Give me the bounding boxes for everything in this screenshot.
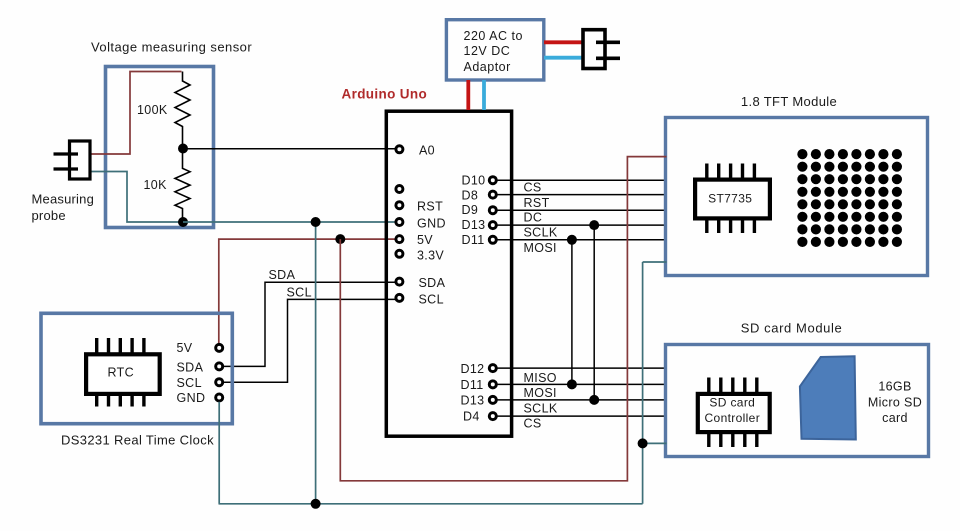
svg-text:DC: DC <box>524 211 543 225</box>
wire: probe plus to 100K top (red) <box>90 72 182 155</box>
wire: D10 to TFT CS <box>497 179 667 181</box>
pin D13 <box>489 222 496 229</box>
svg-text:D8: D8 <box>462 188 479 202</box>
svg-text:5V: 5V <box>417 233 433 247</box>
op: Arduino Uno board outline U1 <box>386 111 511 436</box>
wire: 5V net Arduino 5V to RTC 5V (red) <box>219 239 396 344</box>
wire: D11 to TFT MOSI <box>497 239 667 241</box>
pin RTC SCL <box>216 379 223 386</box>
svg-text:16GB: 16GB <box>878 380 911 394</box>
wire: D8 to TFT RST <box>497 194 667 196</box>
pin D11 <box>489 381 496 388</box>
svg-text:100K: 100K <box>137 103 168 117</box>
wire: D12 to SD MISO <box>497 367 667 369</box>
junction: SCLK top <box>589 220 599 230</box>
svg-text:5V: 5V <box>177 341 193 355</box>
svg-text:D11: D11 <box>461 378 484 392</box>
mains plug <box>583 30 620 69</box>
wire: GND teal vertical from GND junction <box>315 222 317 504</box>
wire: adaptor GND blue to Arduino <box>482 80 486 110</box>
wire: GND to TFT (teal) <box>643 261 667 263</box>
pin D11 <box>489 236 496 243</box>
svg-text:SDA: SDA <box>419 276 446 290</box>
module box: Voltage measuring sensor <box>106 67 214 228</box>
pin 5V <box>396 236 403 243</box>
svg-text:SDA: SDA <box>177 361 204 375</box>
svg-text:probe: probe <box>32 208 66 223</box>
svg-text:SCL: SCL <box>419 293 444 307</box>
svg-text:SDA: SDA <box>269 268 296 282</box>
wire: shared MOSI vertical <box>571 240 573 385</box>
svg-text:SCL: SCL <box>177 376 202 390</box>
IC U3 SD card Controller <box>698 378 770 448</box>
pin RST <box>396 202 403 209</box>
wire: D11 to SD MOSI <box>497 383 667 385</box>
measuring probe connector <box>54 141 91 179</box>
wire: SDA Arduino to RTC <box>224 282 396 366</box>
IC U4 RTC DS3231 <box>86 338 160 407</box>
junction: 5V branch <box>335 234 345 244</box>
svg-text:MISO: MISO <box>524 371 557 385</box>
pin D12 <box>489 365 496 372</box>
svg-text:3.3V: 3.3V <box>417 249 444 263</box>
svg-text:CS: CS <box>524 180 542 194</box>
svg-text:Voltage measuring sensor: Voltage measuring sensor <box>91 40 252 55</box>
pin GND <box>396 219 403 226</box>
wire: D4 to SD CS <box>497 415 667 417</box>
svg-text:SD card Module: SD card Module <box>741 320 843 335</box>
wire: adaptor to plug blue <box>544 56 582 60</box>
svg-text:Arduino Uno: Arduino Uno <box>342 86 428 101</box>
svg-text:MOSI: MOSI <box>524 241 557 255</box>
svg-text:10K: 10K <box>144 178 168 192</box>
pin 3.3V <box>396 250 403 257</box>
pin D13 <box>489 396 496 403</box>
pin RTC 5V <box>216 344 223 351</box>
resistor R2 10K <box>144 149 191 223</box>
svg-text:D9: D9 <box>462 203 479 217</box>
pin D9 <box>489 207 496 214</box>
module box: DS3231 RTC <box>41 313 232 423</box>
wire: D9 to TFT DC <box>497 209 667 211</box>
svg-text:MOSI: MOSI <box>524 386 557 400</box>
wire: adaptor 12V red to Arduino <box>466 80 470 110</box>
svg-text:D10: D10 <box>462 173 486 187</box>
svg-text:Controller: Controller <box>705 411 761 425</box>
wire: GND to SD module (teal) <box>643 442 667 444</box>
svg-text:A0: A0 <box>419 143 435 157</box>
svg-text:RST: RST <box>417 200 443 214</box>
pin RTC SDA <box>216 363 223 370</box>
pin (unlabeled) <box>396 186 403 193</box>
svg-text:D13: D13 <box>461 393 485 407</box>
pin D4 <box>489 413 496 420</box>
svg-text:D12: D12 <box>461 362 485 376</box>
svg-text:Micro SD: Micro SD <box>868 395 922 409</box>
svg-text:SCLK: SCLK <box>524 225 558 239</box>
pin D10 <box>489 177 496 184</box>
svg-text:RST: RST <box>524 196 550 210</box>
junction: SCLK bottom <box>589 395 599 405</box>
wire: D13 to SD SCLK <box>497 399 667 401</box>
wire: divider mid to A0 <box>183 148 395 150</box>
IC U2 ST7735 <box>695 164 770 234</box>
svg-text:SD card: SD card <box>709 396 755 410</box>
wire: GND right vertical (teal) <box>642 262 644 504</box>
svg-text:Measuring: Measuring <box>32 192 95 207</box>
junction: GND SD branch <box>638 438 648 448</box>
module box: SD card Module <box>666 345 929 457</box>
wire: SCL Arduino to RTC <box>224 299 396 382</box>
svg-text:CS: CS <box>524 416 542 430</box>
resistor R1 100K <box>137 72 190 149</box>
junction: GND bottom <box>311 499 321 509</box>
svg-text:Adaptor: Adaptor <box>464 60 511 74</box>
svg-text:220 AC to: 220 AC to <box>464 29 523 43</box>
wire: 5V red vertical down <box>340 157 666 481</box>
pin SDA <box>396 278 403 285</box>
svg-text:GND: GND <box>177 391 206 405</box>
svg-text:ST7735: ST7735 <box>708 191 752 205</box>
pin D8 <box>489 191 496 198</box>
svg-text:D13: D13 <box>462 218 486 232</box>
wire: adaptor to plug red <box>544 40 582 44</box>
junction: GND branch <box>311 217 321 227</box>
pin SCL <box>396 294 403 301</box>
svg-text:D4: D4 <box>463 410 480 424</box>
pin RTC GND <box>216 394 223 401</box>
module box: 1.8 TFT Module <box>666 118 928 276</box>
junction: MOSI bottom <box>567 379 577 389</box>
wire: GND net divider bottom to Arduino GND (teal) <box>183 221 396 223</box>
micro SD card body <box>800 356 856 439</box>
wire: D13 to TFT SCLK <box>497 224 667 226</box>
module box: 220 AC to 12V DC Adaptor <box>446 20 543 80</box>
svg-text:SCL: SCL <box>287 286 312 300</box>
wire: probe minus to divider bottom (teal) <box>90 172 180 223</box>
svg-text:12V DC: 12V DC <box>464 44 511 58</box>
svg-text:1.8 TFT Module: 1.8 TFT Module <box>741 94 837 109</box>
pin A0 <box>396 146 403 153</box>
svg-text:RTC: RTC <box>107 366 134 380</box>
wire: RTC GND down (teal) <box>218 402 220 504</box>
wire: GND bottom bus (teal) <box>219 503 643 505</box>
junction: MOSI top <box>567 235 577 245</box>
svg-text:GND: GND <box>417 216 446 230</box>
svg-text:D11: D11 <box>462 233 485 247</box>
node: divider bottom <box>178 217 188 227</box>
TFT pixel dot matrix <box>797 149 902 247</box>
wire: shared SCLK vertical <box>593 225 595 400</box>
node: divider midpoint <box>178 144 188 154</box>
svg-text:DS3231 Real Time Clock: DS3231 Real Time Clock <box>61 433 214 448</box>
svg-text:card: card <box>882 411 908 425</box>
svg-text:SCLK: SCLK <box>524 401 558 415</box>
